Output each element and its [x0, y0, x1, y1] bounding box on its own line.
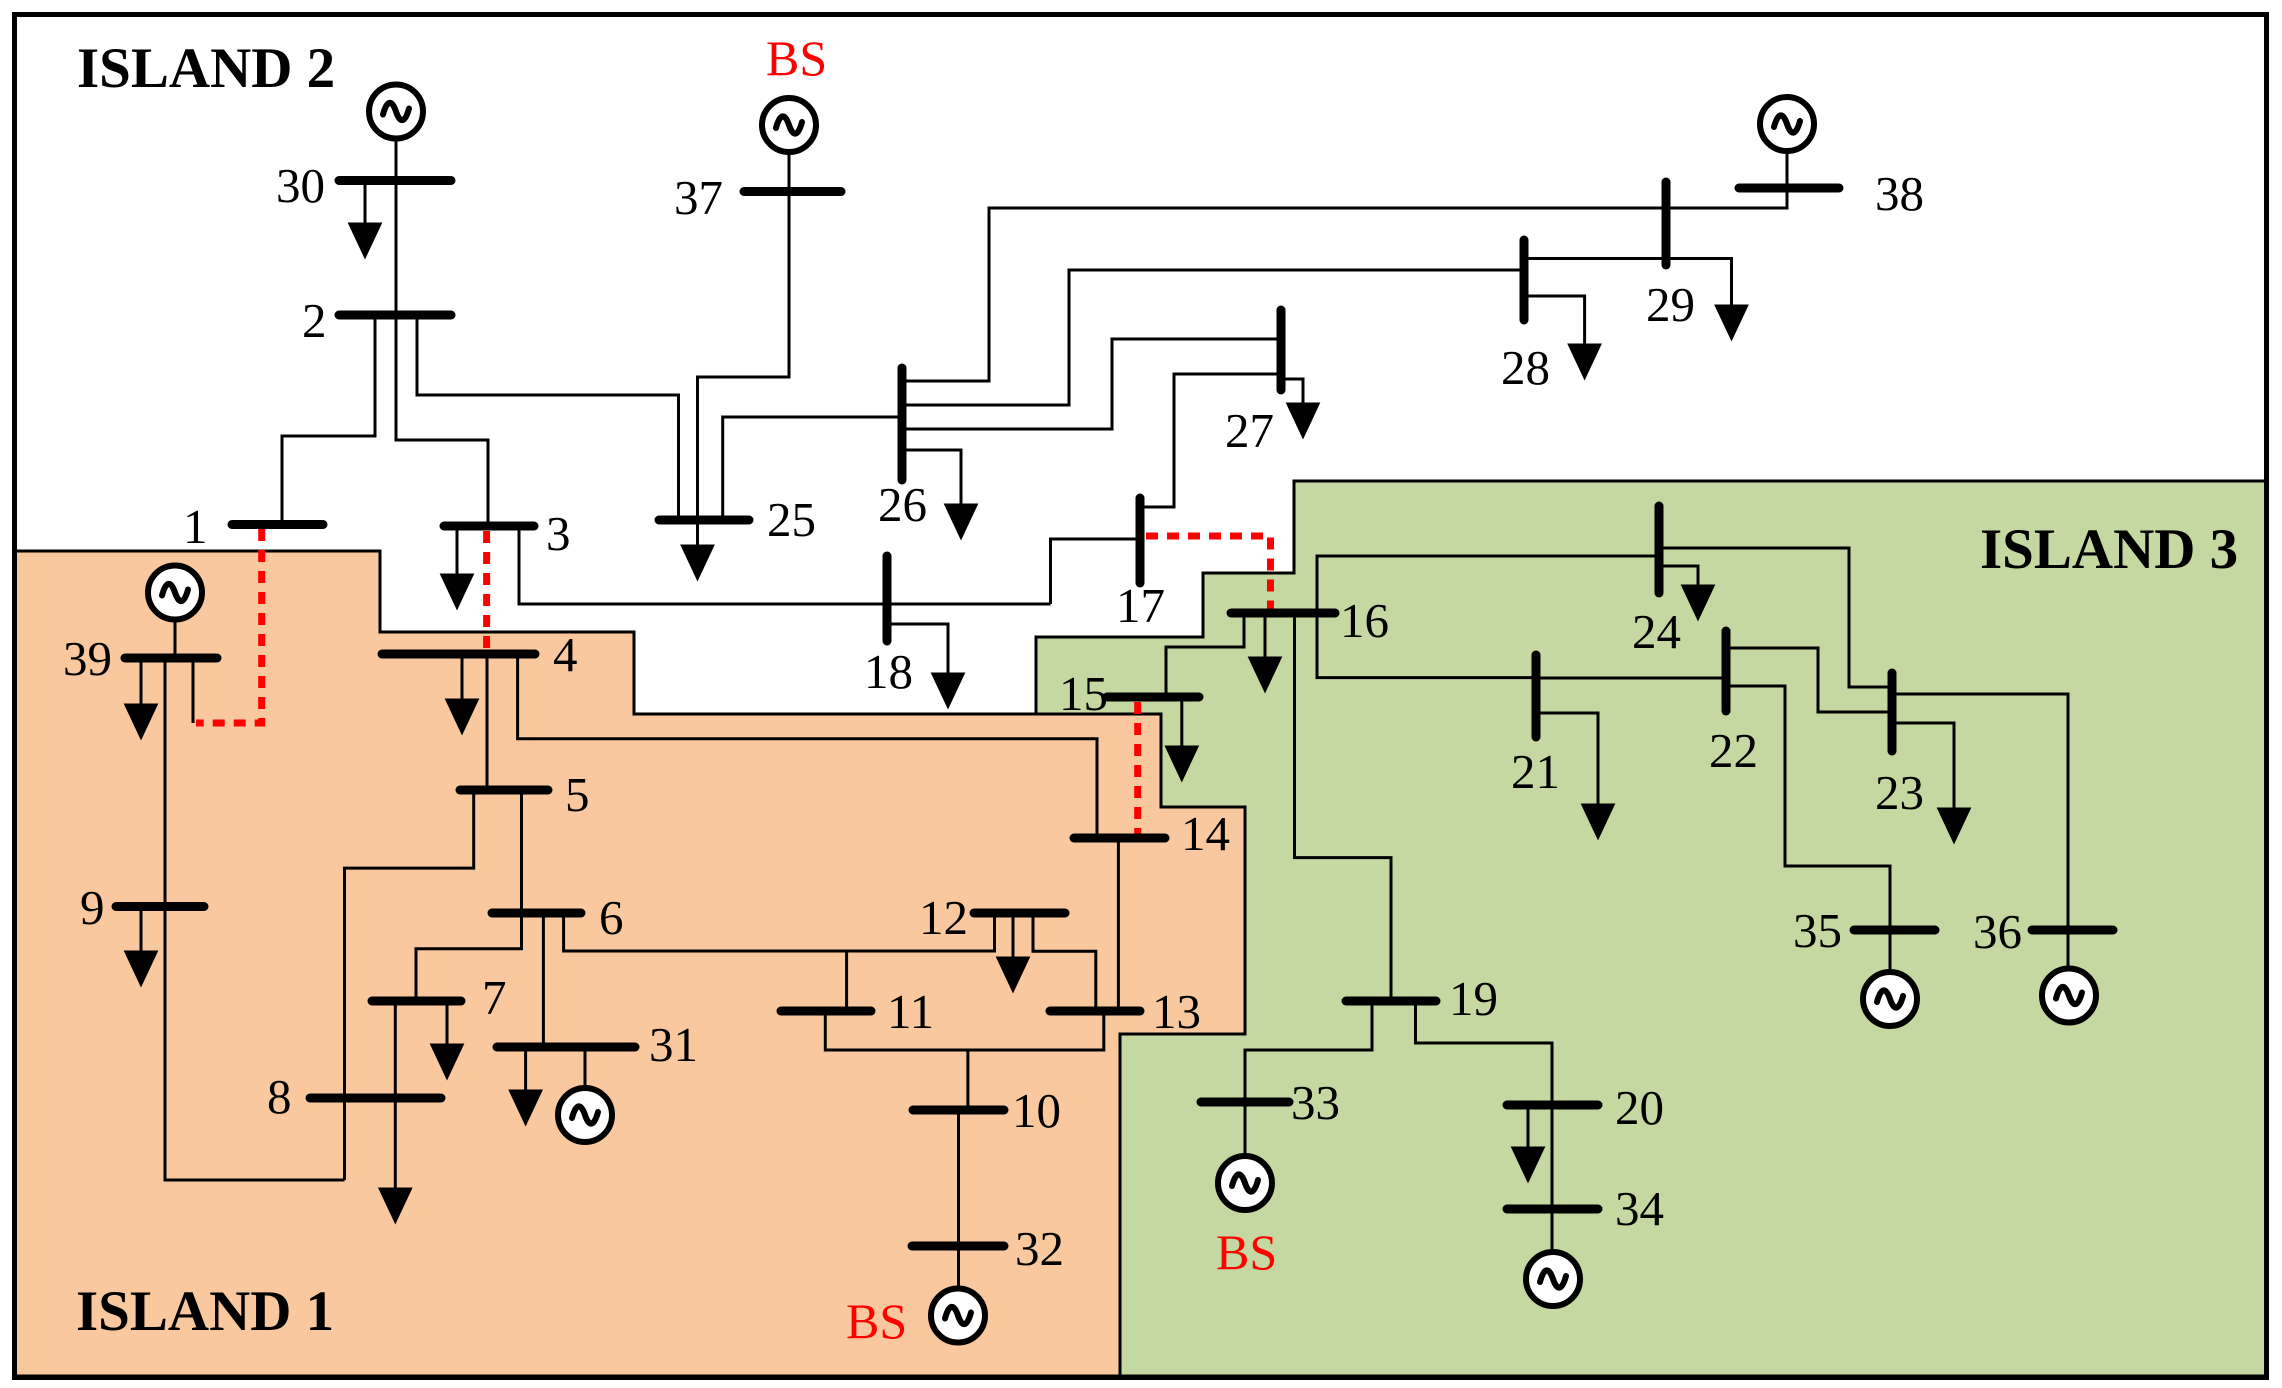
- svg-text:2: 2: [302, 293, 327, 348]
- bus 25: [659, 516, 749, 525]
- bus 3: [444, 522, 534, 531]
- wire 1-2: [282, 315, 375, 525]
- wire 15-16: [1166, 613, 1244, 697]
- svg-text:16: 16: [1340, 593, 1389, 648]
- svg-text:30: 30: [276, 158, 325, 213]
- svg-text:21: 21: [1511, 744, 1560, 799]
- svg-text:23: 23: [1875, 765, 1924, 820]
- svg-text:19: 19: [1449, 971, 1498, 1026]
- load arrow bus 25: [696, 520, 699, 552]
- svg-text:31: 31: [649, 1017, 698, 1072]
- bus 33: [1201, 1098, 1289, 1107]
- wire 13-14: [1117, 838, 1120, 1011]
- wire 17-18 (vertical + top jog to bus17): [1051, 539, 1141, 604]
- bus 20: [1507, 1101, 1598, 1110]
- bus 15: [1107, 693, 1199, 702]
- wire 23-36: [1892, 694, 2068, 930]
- load arrow bus 28: [1524, 296, 1585, 351]
- bus 16: [1231, 609, 1335, 618]
- tie line 3-4 (red dashed, open): [483, 531, 490, 650]
- bus 39: [125, 654, 217, 663]
- bus 5: [460, 786, 548, 795]
- load arrow bus 26: [902, 450, 961, 511]
- bus 7: [372, 997, 461, 1006]
- bus 2: [339, 311, 451, 320]
- load arrow bus 23: [1892, 723, 1954, 815]
- wire 19-20: [1416, 1001, 1553, 1105]
- bus 11: [781, 1007, 871, 1016]
- load arrow bus 24: [1659, 566, 1698, 592]
- wire 16-19: [1295, 613, 1392, 1001]
- svg-text:27: 27: [1225, 403, 1274, 458]
- wire 12-13: [1033, 913, 1096, 1011]
- wire 22-35: [1726, 686, 1890, 930]
- load arrow bus 15: [1180, 697, 1183, 753]
- svg-text:12: 12: [919, 890, 968, 945]
- load arrow bus 30: [364, 181, 367, 231]
- svg-text:9: 9: [80, 880, 105, 935]
- wire 11 riser from shared run: [845, 951, 848, 1011]
- svg-text:17: 17: [1116, 578, 1165, 633]
- svg-text:10: 10: [1012, 1083, 1061, 1138]
- wire 26-27: [902, 339, 1281, 429]
- bus 6: [492, 909, 581, 918]
- wire gen39 riser: [174, 620, 177, 659]
- bus 17: [1136, 498, 1145, 583]
- wire gen35 riser: [1889, 930, 1892, 972]
- bus 19: [1346, 997, 1436, 1006]
- bus 12: [974, 909, 1065, 918]
- bus 34: [1507, 1205, 1598, 1214]
- island 1 region (orange): [14, 551, 1245, 1376]
- svg-text:11: 11: [887, 984, 934, 1039]
- svg-text:32: 32: [1015, 1221, 1064, 1276]
- generator G39: [148, 566, 202, 620]
- svg-text:5: 5: [565, 767, 590, 822]
- bus 14: [1074, 834, 1165, 843]
- wire 10-32: [957, 1110, 960, 1246]
- load arrow bus 21: [1536, 713, 1598, 811]
- svg-text:37: 37: [674, 170, 723, 225]
- svg-text:BS: BS: [1216, 1224, 1277, 1280]
- generator G37: [762, 98, 816, 152]
- wire 25-37 (riser gen37 through bus37 down to bus25): [698, 152, 790, 520]
- svg-text:39: 39: [63, 631, 112, 686]
- bus 9: [116, 902, 204, 911]
- load arrow bus 16: [1264, 613, 1267, 664]
- bus 36: [2032, 926, 2113, 935]
- svg-text:18: 18: [864, 644, 913, 699]
- svg-text:26: 26: [878, 477, 927, 532]
- generator G33: [1218, 1156, 1272, 1210]
- svg-text:BS: BS: [766, 30, 827, 86]
- generator G34: [1526, 1252, 1580, 1306]
- generator G32: [931, 1289, 985, 1343]
- wire 17-27: [1140, 374, 1281, 507]
- wire 39 tie stub (black part of 1-39): [192, 658, 195, 723]
- svg-text:24: 24: [1632, 604, 1681, 659]
- bus 30: [339, 176, 451, 185]
- bus 28: [1520, 240, 1529, 320]
- svg-text:3: 3: [546, 506, 571, 561]
- wire 5-6: [520, 790, 523, 913]
- bus 18: [883, 556, 892, 641]
- load arrow bus 27: [1281, 379, 1303, 410]
- bus 24: [1655, 506, 1664, 593]
- load arrow bus 29: [1666, 259, 1732, 313]
- wire 6-11 / 12-11 shared run: [564, 913, 995, 951]
- island 3 region (green): [1036, 481, 2266, 1376]
- wire 25-26: [723, 417, 902, 520]
- wire 26-28: [902, 270, 1524, 405]
- svg-text:22: 22: [1709, 723, 1758, 778]
- bus 37: [744, 187, 841, 196]
- wire 23-24: [1659, 548, 1892, 687]
- svg-text:ISLAND 1: ISLAND 1: [76, 1280, 334, 1343]
- generator G36: [2042, 969, 2096, 1023]
- load arrow bus 9: [140, 907, 143, 959]
- wire 10-13: [968, 1011, 1104, 1050]
- wire 26-29 and 29-38: [902, 188, 1787, 381]
- svg-text:4: 4: [553, 627, 578, 682]
- wire 21-22: [1536, 677, 1726, 680]
- wire 16-24: [1317, 556, 1659, 613]
- load arrow bus 18: [887, 624, 948, 680]
- wire gen38 riser: [1786, 151, 1789, 188]
- wire 10-11: [825, 1011, 968, 1110]
- generator G38: [1760, 97, 1814, 151]
- load arrow bus 12: [1012, 913, 1015, 964]
- wire 5-8: [345, 790, 474, 1098]
- load arrow bus 31: [524, 1047, 527, 1097]
- svg-text:ISLAND 3: ISLAND 3: [1980, 518, 2238, 581]
- wire 2-3: [396, 315, 488, 526]
- wire 20-34: [1551, 1105, 1554, 1209]
- bus 29: [1662, 182, 1671, 265]
- bus 38: [1739, 184, 1839, 193]
- wire 6-7: [416, 913, 522, 1001]
- wire 2-25: [417, 315, 679, 520]
- svg-text:6: 6: [599, 890, 624, 945]
- svg-text:25: 25: [767, 492, 816, 547]
- wire 28-29: [1524, 257, 1666, 260]
- svg-text:38: 38: [1875, 166, 1924, 221]
- load arrow bus 4: [461, 654, 464, 706]
- wire 16-21: [1317, 613, 1536, 678]
- wire 4-5: [486, 654, 489, 790]
- wire 3-18 (through bus18 to 17-18 corner): [519, 526, 1051, 604]
- load arrow bus 7: [446, 1001, 449, 1051]
- bus 26: [898, 368, 907, 480]
- tie line 14-15 (red dashed, open): [1134, 702, 1141, 836]
- wire gen33 riser: [1244, 1102, 1247, 1156]
- svg-text:7: 7: [482, 970, 507, 1025]
- bus 23: [1888, 673, 1897, 751]
- tie line 1-39 (red dashed, open): [196, 529, 262, 723]
- bus 10: [913, 1106, 1004, 1115]
- bus 8: [310, 1094, 441, 1103]
- wire gen32 riser: [957, 1246, 960, 1289]
- wire 30-2 (riser gen30 through bus30 to bus2): [395, 139, 398, 316]
- generator G31: [558, 1088, 612, 1142]
- wire 7-8: [394, 1001, 397, 1098]
- svg-text:29: 29: [1646, 277, 1695, 332]
- wire gen36 riser: [2067, 930, 2070, 969]
- bus 31: [497, 1043, 635, 1052]
- wire 6-31: [542, 913, 545, 1047]
- generator G30: [369, 85, 423, 139]
- svg-text:33: 33: [1291, 1075, 1340, 1130]
- svg-text:BS: BS: [846, 1293, 907, 1349]
- wire 9-39 and 8-9 left leg: [165, 658, 345, 1180]
- load arrow bus 8: [394, 1098, 397, 1195]
- bus 27: [1277, 310, 1286, 390]
- load arrow bus 3: [456, 526, 459, 581]
- tie line 16-17 (red dashed, open): [1146, 536, 1271, 609]
- svg-text:20: 20: [1615, 1080, 1664, 1135]
- svg-text:34: 34: [1615, 1181, 1664, 1236]
- bus 1: [232, 520, 323, 529]
- load arrow bus 39: [140, 658, 143, 711]
- svg-text:15: 15: [1059, 666, 1108, 721]
- bus 4: [382, 650, 535, 659]
- svg-text:8: 8: [267, 1069, 292, 1124]
- wire 22-23: [1726, 648, 1892, 712]
- wire 8-9 right leg: [343, 1098, 346, 1180]
- bus 13: [1050, 1007, 1140, 1016]
- wire 4-14: [518, 654, 1097, 838]
- svg-text:ISLAND 2: ISLAND 2: [77, 37, 335, 100]
- svg-text:1: 1: [183, 499, 208, 554]
- svg-text:35: 35: [1793, 903, 1842, 958]
- svg-text:28: 28: [1501, 340, 1550, 395]
- load arrow bus 20: [1527, 1105, 1530, 1154]
- bus 35: [1854, 926, 1935, 935]
- generator G35: [1863, 972, 1917, 1026]
- svg-text:13: 13: [1152, 984, 1201, 1039]
- bus 22: [1722, 631, 1731, 711]
- wire gen31 riser: [584, 1047, 587, 1088]
- bus 32: [912, 1242, 1004, 1251]
- wire gen34 riser: [1551, 1209, 1554, 1252]
- bus 21: [1532, 655, 1541, 737]
- svg-text:14: 14: [1181, 806, 1230, 861]
- svg-text:36: 36: [1973, 904, 2022, 959]
- wire 19-33: [1245, 1001, 1372, 1102]
